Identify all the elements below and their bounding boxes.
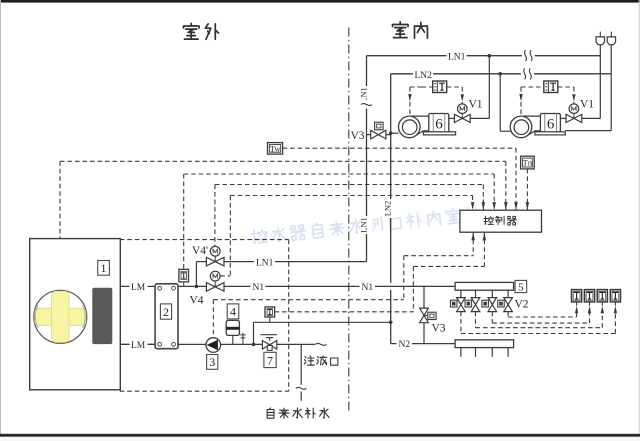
wire LN1 horizontal main bbox=[367, 55, 601, 57]
wire V3 bypass top bbox=[367, 134, 391, 136]
supply manifold bbox=[455, 282, 513, 290]
label LN1 rotated lower bbox=[361, 216, 373, 234]
outdoor fan circle bbox=[34, 290, 87, 343]
valve V3 lower line bbox=[423, 286, 425, 343]
wire LN2 vertical riser bbox=[390, 74, 392, 322]
break symbol on LN1 riser bbox=[361, 101, 373, 109]
thermostat T3 bbox=[597, 290, 607, 302]
sensor T near valve 7 bbox=[265, 307, 275, 317]
valve V1 unit1 bbox=[454, 114, 462, 122]
outdoor unit 1 enclosure bbox=[30, 239, 121, 390]
return manifold bbox=[455, 340, 513, 348]
wire LN2 horizontal main bbox=[391, 73, 612, 75]
svg-text:V3: V3 bbox=[432, 323, 446, 335]
label 3 box bbox=[207, 355, 218, 370]
svg-text:1: 1 bbox=[101, 261, 107, 275]
svg-text:6: 6 bbox=[547, 117, 555, 133]
fan-coil volute inner bbox=[514, 120, 529, 135]
valve V2-1 with actuator bbox=[460, 290, 462, 297]
fan-coil volute inner bbox=[402, 120, 417, 135]
svg-text:V1: V1 bbox=[580, 99, 594, 111]
wire valve V2-4 to thermostat bbox=[507, 312, 509, 317]
wire pump3 to controller bbox=[472, 232, 474, 256]
wire sensor T(LM) to controller bbox=[184, 173, 495, 175]
expansion tank 4 bbox=[226, 320, 239, 335]
valve V1 unit2 bbox=[566, 114, 574, 122]
valve V2-2 with actuator bbox=[475, 290, 477, 297]
fan-coil volute outlet bbox=[416, 131, 428, 135]
indoor/outdoor divider line bbox=[348, 28, 350, 412]
title 室外 (outdoor) bbox=[184, 23, 200, 39]
valve V1 motor unit2 bbox=[569, 104, 579, 114]
svg-text:4: 4 bbox=[230, 305, 236, 319]
pipe N1 from exchanger bbox=[178, 285, 455, 287]
break on makeup pipe bbox=[296, 387, 306, 389]
valve V3 upper bbox=[371, 130, 379, 139]
wire unit2 valve stem bbox=[560, 117, 566, 119]
valve 7 bbox=[260, 334, 277, 336]
return manifold stubs bbox=[460, 348, 462, 357]
node LN2 junction bbox=[498, 72, 502, 76]
node unit1 return junction bbox=[389, 131, 393, 135]
wire branch to V4p bbox=[195, 262, 197, 287]
wire unit2 return riser bbox=[499, 74, 501, 131]
fan coil unit 1 box 6 bbox=[429, 114, 449, 133]
label LN1 outdoor bbox=[254, 256, 275, 268]
sensor T on N1 bbox=[179, 269, 189, 282]
wire sensorT7 to controller bbox=[483, 232, 485, 266]
frame bottom border bbox=[0, 434, 640, 437]
svg-text:N1: N1 bbox=[253, 283, 265, 293]
valve V4 motor bbox=[210, 271, 220, 281]
svg-text:7: 7 bbox=[267, 353, 273, 367]
valve V4p motor bbox=[210, 246, 220, 256]
label 1 box bbox=[98, 261, 110, 276]
fan-coil volute outer bbox=[399, 116, 421, 138]
wire compressor to controller bbox=[60, 160, 506, 162]
controller box bbox=[460, 210, 542, 232]
watermark bbox=[251, 206, 479, 245]
wire unit2 T to fan dashed bbox=[521, 86, 544, 88]
valve V2-3 with actuator bbox=[491, 290, 493, 297]
svg-text:LN2: LN2 bbox=[415, 71, 433, 81]
wire fan-coil casing top bbox=[411, 115, 428, 117]
svg-text:Tn: Tn bbox=[523, 158, 533, 168]
svg-text:LN1: LN1 bbox=[256, 259, 274, 269]
wire valve V2-1 to thermostat bbox=[460, 312, 462, 334]
svg-text:3: 3 bbox=[209, 355, 215, 369]
svg-text:N2: N2 bbox=[399, 340, 411, 350]
fan coil unit 1 base bbox=[423, 132, 455, 135]
pipe makeup water bbox=[300, 344, 302, 384]
svg-text:V3: V3 bbox=[351, 130, 365, 142]
svg-text:LN2: LN2 bbox=[383, 201, 393, 217]
pipe LM lower run bbox=[178, 343, 321, 345]
node pipe junction at branch bbox=[252, 343, 256, 347]
label 控制器 bbox=[484, 216, 493, 224]
valve V4p bbox=[206, 257, 215, 266]
hydraulic module boundary bbox=[120, 239, 289, 241]
svg-text:LM: LM bbox=[131, 283, 146, 293]
outdoor fan blades bbox=[35, 291, 86, 342]
air vent plug 1 bbox=[596, 37, 604, 45]
sensor box Tn bbox=[521, 156, 535, 169]
wire unit1 valve stem bbox=[449, 117, 455, 119]
svg-text:V2: V2 bbox=[515, 299, 529, 311]
valve V3 lower bbox=[420, 308, 429, 315]
wire valve V4p to controller bbox=[215, 184, 483, 186]
wire unit2 T to valve dashed bbox=[558, 86, 574, 88]
pipe N2 bbox=[390, 322, 392, 343]
tank 4 label box bbox=[227, 304, 239, 319]
label N1 left bbox=[251, 281, 266, 293]
wire unit2 right return bbox=[565, 130, 611, 132]
wire LN1 vertical riser bbox=[366, 56, 368, 262]
label LM upper bbox=[130, 281, 148, 293]
pipe branch to N2 bbox=[253, 322, 255, 344]
thermostat T1 bbox=[572, 290, 582, 302]
node branch N2 junction bbox=[389, 321, 393, 325]
break at fill port bbox=[315, 340, 327, 348]
label 注液口 bbox=[304, 356, 314, 365]
fan-coil volute outer bbox=[510, 116, 532, 138]
valve V4 bbox=[206, 283, 215, 292]
wire unit1 T to valve dashed bbox=[447, 86, 463, 88]
label LN1 on line bbox=[447, 49, 467, 61]
svg-text:6: 6 bbox=[435, 117, 443, 133]
label N2 bbox=[397, 338, 413, 350]
thermostat T4 bbox=[610, 290, 620, 302]
label LM lower bbox=[130, 339, 148, 351]
label 7 box bbox=[264, 352, 276, 367]
valve V2-4 with actuator bbox=[507, 290, 509, 297]
svg-text:LN1: LN1 bbox=[448, 53, 466, 63]
svg-text:V4': V4' bbox=[192, 245, 208, 257]
air vent plug 2 bbox=[607, 37, 615, 45]
auto air vent bbox=[242, 333, 244, 344]
wire pump3 bus bbox=[213, 299, 403, 301]
wire Tw to controller bbox=[283, 147, 516, 149]
svg-text:LN1: LN1 bbox=[359, 217, 369, 233]
wire valve V4 to controller bbox=[230, 195, 472, 197]
pump 3 bbox=[206, 338, 221, 353]
pipe LM lower bbox=[120, 343, 155, 345]
thermostat T2 bbox=[584, 290, 594, 302]
wire unit1 return bbox=[391, 132, 399, 134]
label LN1 rotated upper bbox=[361, 86, 373, 104]
svg-text:N1: N1 bbox=[362, 283, 374, 293]
wire unit1 T to fan dashed bbox=[422, 86, 433, 88]
valve V1 motor unit1 bbox=[458, 104, 468, 114]
pipe LN1 outdoor bbox=[224, 261, 367, 263]
wire sensorT7 bus bbox=[275, 311, 414, 313]
label 自来水补水 bbox=[267, 408, 274, 418]
label 2 box bbox=[160, 304, 171, 319]
fan coil unit 2 base bbox=[535, 132, 565, 135]
sensor T unit1 bbox=[433, 81, 447, 93]
label LN2 on line bbox=[413, 68, 433, 80]
wire unit2 outlet bbox=[582, 117, 601, 119]
svg-text:LM: LM bbox=[131, 341, 146, 351]
fan coil unit 2 box 6 bbox=[540, 114, 560, 133]
node LN1 junction bbox=[488, 54, 492, 58]
label N1 right bbox=[360, 281, 376, 293]
heat exchanger 2 bbox=[155, 284, 178, 349]
label 5 box bbox=[515, 280, 527, 292]
frame top border bbox=[0, 0, 640, 3]
label LN2 rotated bbox=[385, 199, 397, 218]
sensor box Tw bbox=[268, 143, 283, 155]
svg-text:Tw: Tw bbox=[270, 143, 282, 153]
svg-text:2: 2 bbox=[163, 305, 169, 319]
svg-text:LN1: LN1 bbox=[359, 87, 369, 103]
wire Tn to controller bbox=[526, 169, 528, 210]
sensor T unit2 bbox=[544, 81, 558, 93]
wire fan-coil casing top bbox=[523, 115, 540, 117]
svg-text:5: 5 bbox=[518, 282, 524, 294]
node V4 branch junction bbox=[195, 285, 199, 289]
break symbol on LN2 bbox=[521, 68, 534, 80]
wire valve V2-2 to thermostat bbox=[475, 312, 477, 328]
wire unit1 outlet bbox=[470, 117, 489, 119]
title 室内 (indoor) bbox=[393, 22, 409, 38]
pipe LM upper bbox=[120, 285, 155, 287]
break symbol on LN1 bbox=[522, 50, 535, 62]
svg-text:V4: V4 bbox=[190, 295, 204, 307]
fan-coil volute outlet bbox=[528, 131, 540, 135]
svg-text:V1: V1 bbox=[469, 99, 483, 111]
outdoor coil dark block bbox=[92, 288, 112, 344]
exchanger bolts bbox=[158, 286, 162, 290]
wire valve V2-3 to thermostat bbox=[491, 312, 493, 324]
